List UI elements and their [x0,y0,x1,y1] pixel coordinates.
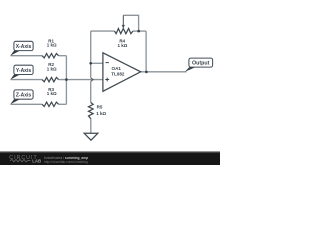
svg-text:1 kΩ: 1 kΩ [47,91,57,96]
svg-text:http://circuitlab.com/c/urwbtn: http://circuitlab.com/c/urwbtng [44,160,88,164]
resistor R1 [42,38,59,58]
potentiometer R4 [115,15,133,48]
svg-text:1 kΩ: 1 kΩ [47,43,57,48]
wire: R4 wiper loop [123,15,138,31]
svg-text:LAB: LAB [32,159,41,164]
svg-text:Z-Axis: Z-Axis [16,93,32,99]
svg-text:OA1: OA1 [112,66,122,71]
wire: R4 right to feedback corner [133,30,146,32]
svg-text:1 kΩ: 1 kΩ [117,43,127,48]
wire: feedback bus upper segment [90,31,92,78]
wire: R4 left [91,30,115,32]
ground [84,133,98,140]
wire: R3 output to bus corner [59,103,67,105]
wire: feedback bus lower segment to R5 [90,81,92,102]
wire: Z-Axis stub [11,103,43,105]
svg-text:Output: Output [192,61,210,67]
svg-text:Y-Axis: Y-Axis [16,68,32,74]
op-amp OA1 [103,53,141,92]
junction: inverting input tap [89,62,92,65]
footer credit text [44,156,88,164]
svg-text:TL082: TL082 [111,72,125,77]
resistor R3 [42,87,59,107]
wire: op-amp output [141,71,187,73]
node flag Z-Axis [10,90,33,104]
wire: summing bus vertical [65,56,67,105]
wire: feedback vertical [145,31,147,72]
footer logo CIRCUIT LAB [9,155,41,163]
wire: R5 to ground [90,119,92,133]
node flag Y-Axis [10,65,33,79]
wire: R1 output to bus corner [59,55,67,57]
svg-text:R5: R5 [97,105,103,110]
svg-text:1 kΩ: 1 kΩ [96,111,106,116]
junction: R4 wiper tie [137,30,140,33]
svg-text:1 kΩ: 1 kΩ [47,66,57,71]
node flag X-Axis [10,41,33,55]
junction: output node [145,71,148,74]
resistor R5 [89,103,107,119]
wire: R2 output to non-inverting input [59,79,103,81]
node flag Output [185,58,213,72]
wire: crossover hop [91,78,93,81]
junction: summing node at Y row [65,78,68,81]
wire: inverting input [91,62,103,64]
wire: Y-Axis stub [11,79,43,81]
svg-text:X-Axis: X-Axis [16,44,32,50]
wire: X-Axis stub [11,55,43,57]
resistor R2 [42,62,59,82]
